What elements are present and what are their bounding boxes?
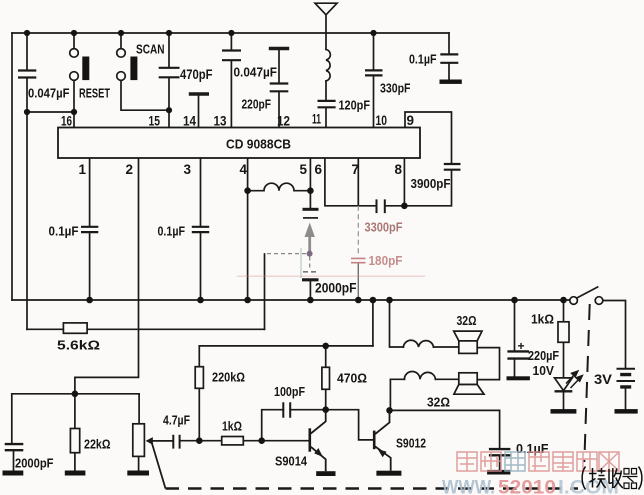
stub plate pin12 top bar bbox=[269, 47, 289, 50]
wire 2000pF bottom-left column bbox=[12, 394, 14, 471]
capacitor C 100pF plates bbox=[283, 403, 290, 416]
wire scan switch stubs bbox=[121, 33, 169, 110]
capacitor 0.1uF top-right plates bbox=[440, 54, 458, 62]
svg-text:220kΩ: 220kΩ bbox=[212, 370, 245, 385]
svg-text:15: 15 bbox=[149, 114, 161, 129]
svg-text:0.1µF: 0.1µF bbox=[158, 225, 186, 239]
capacitor C1 0.047uF left stubs bbox=[26, 33, 28, 112]
speaker BL2 box bbox=[459, 373, 477, 385]
ground LED bbox=[551, 409, 577, 414]
ground 0.1uF bottom-right bbox=[487, 470, 510, 475]
capacitor 220pF plates bbox=[270, 84, 289, 92]
wire volume rail bbox=[12, 393, 139, 395]
resistor R2 220k body bbox=[195, 367, 203, 389]
capacitor 2000pF dashed plate bbox=[303, 271, 318, 273]
wire supply rail 220k/470 bbox=[199, 345, 373, 347]
svg-text:120pF: 120pF bbox=[339, 98, 371, 113]
speaker BL1 box bbox=[459, 341, 477, 354]
svg-text:1: 1 bbox=[79, 162, 87, 177]
ground 2000pF bottom-left bbox=[3, 471, 24, 476]
wire pin10 column 330pF bbox=[373, 33, 375, 128]
svg-text:470Ω: 470Ω bbox=[337, 371, 367, 386]
resistor R4 22k body bbox=[70, 429, 79, 453]
wire reset switch stubs pin16 bbox=[73, 33, 75, 128]
capacitor 180pF faint plates bbox=[351, 258, 366, 262]
wire top rail bbox=[12, 32, 449, 34]
svg-text:10: 10 bbox=[376, 113, 388, 128]
resistor R3 1k body bbox=[222, 437, 244, 445]
wire pin4 column bbox=[247, 158, 249, 300]
svg-text:22kΩ: 22kΩ bbox=[84, 438, 111, 452]
varactor gray dot bbox=[307, 251, 313, 257]
wire pin7 upper bbox=[357, 158, 359, 206]
wire bus to supply rail link bbox=[372, 300, 374, 346]
capacitor 0.1uF pin3 plates bbox=[192, 227, 209, 232]
wire pin15 column with 470pF gap bbox=[168, 33, 170, 128]
wire antenna column pin11 bbox=[325, 15, 327, 128]
watermark chinese characters pink outline bbox=[457, 452, 619, 471]
battery stub to ground bbox=[625, 388, 627, 409]
svg-text:+: + bbox=[518, 339, 525, 353]
resistor R5 470 body bbox=[322, 367, 330, 389]
inductor L4 speaker coil2 bbox=[404, 372, 435, 380]
svg-text:2: 2 bbox=[126, 162, 134, 177]
wire ground bus bbox=[12, 299, 570, 301]
wire pin7 faint lower segment bbox=[357, 206, 359, 257]
wire top right 0.1uF column bbox=[448, 33, 450, 80]
svg-text:220pF: 220pF bbox=[242, 97, 272, 112]
svg-text:2000pF: 2000pF bbox=[315, 281, 357, 296]
resistor R 5.6k line bbox=[27, 328, 265, 330]
svg-text:1kΩ: 1kΩ bbox=[531, 313, 554, 327]
scan artifact teal line bbox=[300, 248, 302, 278]
svg-text:8: 8 bbox=[395, 162, 403, 177]
wire pin3 column 0.1uF bbox=[200, 158, 202, 300]
svg-text:4: 4 bbox=[240, 162, 248, 177]
svg-text:3: 3 bbox=[184, 162, 192, 177]
pushbutton SCAN circles bbox=[117, 49, 126, 58]
svg-text:5: 5 bbox=[300, 162, 308, 177]
wire 220uF column bbox=[514, 300, 516, 376]
svg-text:3V: 3V bbox=[594, 372, 612, 387]
battery B1 plates bbox=[617, 369, 636, 381]
svg-text:13: 13 bbox=[214, 114, 227, 129]
dashed receiver boundary bottom bbox=[166, 487, 579, 489]
pushbutton SCAN actuator bbox=[130, 57, 137, 81]
transistor Q2 emitter bbox=[375, 447, 391, 471]
svg-text:470pF: 470pF bbox=[180, 67, 213, 82]
capacitor 220uF plates bbox=[507, 351, 529, 358]
varactor D2 gray arrow bbox=[305, 223, 315, 252]
varactor top plate thick bbox=[303, 208, 319, 211]
wire pin13 column 0.047uF bbox=[230, 33, 232, 128]
svg-text:52010: 52010 bbox=[498, 478, 556, 495]
svg-text:0.1µF: 0.1µF bbox=[49, 225, 79, 239]
wire varactor tap column x264.5 bbox=[264, 254, 266, 329]
svg-text:330pF: 330pF bbox=[380, 81, 411, 96]
svg-text:CD 9088CB: CD 9088CB bbox=[226, 137, 291, 152]
svg-text:7: 7 bbox=[352, 162, 360, 177]
receiver boundary diagonal near pot bbox=[152, 443, 166, 489]
svg-text:220µF: 220µF bbox=[528, 349, 559, 363]
resistor R1 5.6k body bbox=[63, 323, 87, 333]
ground top-right 0.1uF bbox=[440, 80, 462, 84]
node Q1 collector junction bbox=[322, 406, 329, 413]
svg-text:S9012: S9012 bbox=[396, 436, 426, 451]
ground battery bbox=[615, 409, 638, 414]
svg-text:100pF: 100pF bbox=[274, 384, 305, 399]
svg-text:6: 6 bbox=[315, 162, 323, 177]
transistor Q2 emitter arrow inward bbox=[378, 449, 387, 457]
resistor R6 1k right body bbox=[558, 322, 569, 343]
transistor Q2 S9012 base bar bbox=[373, 431, 376, 450]
inductor L1 pin11 coil bbox=[326, 49, 330, 81]
transistor Q1 S9014 base bar bbox=[308, 428, 311, 451]
wire 1k right column bbox=[563, 300, 565, 378]
transistor Q1 emitter arrow bbox=[314, 448, 323, 457]
ground 22k bbox=[65, 471, 86, 476]
LED D1 triangle bbox=[555, 378, 573, 391]
wire bus to speaker coil1 bbox=[390, 300, 404, 347]
antenna bbox=[315, 3, 337, 15]
LED light arrows bbox=[566, 371, 582, 388]
wire pin2 column jog bbox=[75, 158, 139, 394]
varactor dashed bottom column bbox=[309, 257, 311, 271]
capacitor 0.1uF pin1 plates bbox=[81, 227, 98, 232]
svg-text:9: 9 bbox=[407, 113, 415, 128]
label (receiver) black chinese bbox=[582, 467, 642, 490]
capacitor 470pF plates bbox=[159, 68, 180, 78]
node supply rail 470 junction bbox=[322, 343, 329, 350]
svg-text:S9014: S9014 bbox=[275, 454, 308, 469]
svg-text:RESET: RESET bbox=[79, 87, 110, 101]
wire 22k column bbox=[74, 394, 76, 471]
svg-text:32Ω: 32Ω bbox=[457, 313, 477, 328]
wire pin1 column 0.1uF bbox=[89, 158, 91, 300]
speaker BL1 cone bbox=[454, 331, 482, 341]
wire coil2 to speaker2 and S9012 collector bbox=[390, 379, 458, 410]
svg-text:11: 11 bbox=[312, 112, 321, 127]
node top rail junctions bbox=[24, 30, 30, 36]
wire tuning column x27 bbox=[26, 112, 28, 329]
speaker BL2 cone bbox=[454, 385, 484, 395]
node pin8 3300pF junction bbox=[401, 203, 408, 210]
ground S9012 emitter bbox=[376, 471, 401, 476]
wire pin9 loop to 3900pF bbox=[404, 112, 451, 206]
svg-text:SCAN: SCAN bbox=[136, 42, 165, 57]
potentiometer wiper arrow bbox=[146, 437, 153, 445]
svg-text:0.047µF: 0.047µF bbox=[28, 87, 70, 101]
varactor bottom stub to bus bbox=[309, 282, 311, 301]
wire left rail bbox=[11, 33, 13, 300]
wire 220k stubs bbox=[198, 346, 200, 441]
wire coil1 to speaker1 bbox=[434, 346, 459, 348]
varactor dashed tap line bbox=[265, 253, 307, 255]
svg-text:2000pF: 2000pF bbox=[15, 456, 54, 471]
svg-text:3300pF: 3300pF bbox=[365, 220, 403, 235]
watermark www.52010 bottom row bbox=[442, 478, 619, 495]
svg-text:3900pF: 3900pF bbox=[411, 177, 451, 191]
svg-text:5.6kΩ: 5.6kΩ bbox=[57, 338, 100, 353]
wire LED to ground bbox=[563, 392, 565, 410]
scan artifact pink line bbox=[237, 275, 425, 277]
svg-text:WWW.: WWW. bbox=[442, 478, 495, 495]
capacitor 4.7uF plates bbox=[173, 435, 179, 449]
inductor L3 speaker coil1 bbox=[403, 340, 433, 347]
svg-text:4.7µF: 4.7µF bbox=[163, 414, 190, 428]
wire S9014 collector link to S9012 base bbox=[326, 410, 374, 440]
LED cathode bar bbox=[555, 390, 573, 392]
wire pin7 faint to bus bbox=[357, 264, 359, 301]
varactor second plate bbox=[303, 217, 318, 219]
wire pot wiper tail bbox=[149, 440, 173, 442]
svg-text:10V: 10V bbox=[533, 364, 555, 378]
svg-text:180pF: 180pF bbox=[369, 253, 403, 268]
svg-text:16: 16 bbox=[61, 114, 72, 129]
node y112 junctions bbox=[24, 109, 30, 115]
capacitor 120pF plates bbox=[318, 101, 336, 107]
potentiometer RP body bbox=[133, 424, 145, 457]
svg-text:I.COM: I.COM bbox=[558, 478, 619, 495]
pushbutton RESET circles bbox=[70, 49, 79, 58]
ground pot bbox=[127, 471, 149, 476]
dashed receiver boundary right bbox=[584, 304, 589, 462]
varactor top stub bbox=[309, 191, 311, 208]
svg-text:0.047µF: 0.047µF bbox=[234, 65, 278, 80]
wire 100pF branch bbox=[262, 410, 326, 441]
switch S1 circles bbox=[570, 297, 578, 305]
wire pin12 column 220pF bbox=[278, 50, 280, 128]
transistor Q2 collector bbox=[375, 410, 389, 434]
capacitor 0.1uF bottom-right plates bbox=[489, 449, 511, 455]
switch lever bbox=[577, 287, 598, 298]
ground 220uF bbox=[507, 376, 530, 380]
wire 4.7uF to base rail bbox=[180, 440, 309, 442]
transistor Q1 emitter bbox=[311, 447, 326, 471]
node base rail junctions bbox=[196, 437, 203, 444]
svg-text:14: 14 bbox=[183, 114, 196, 129]
wire pin6 to 3300pF line bbox=[325, 158, 405, 206]
svg-text:0.1µF: 0.1µF bbox=[409, 53, 437, 67]
wire pin14 stub bbox=[198, 96, 200, 128]
node bus junctions bbox=[86, 297, 93, 304]
svg-text:0.1µF: 0.1µF bbox=[516, 442, 549, 456]
wire bus right of switch to battery bbox=[603, 301, 626, 369]
node inductor L2 ends bbox=[244, 187, 251, 194]
capacitor 2000pF bottom-left plates bbox=[5, 444, 24, 450]
IC U1 CD9088CB body bbox=[58, 128, 420, 159]
wire S9012 collector line to 0.1uF bbox=[390, 410, 500, 470]
node volume rail junction bbox=[72, 391, 79, 398]
wire pot column bbox=[138, 394, 141, 471]
svg-text:32Ω: 32Ω bbox=[427, 396, 450, 410]
wire reset net y112 bbox=[27, 111, 74, 113]
wire pin5 stub bbox=[309, 158, 311, 191]
svg-text:12: 12 bbox=[277, 114, 290, 129]
capacitor 0.047uF pin13 plates bbox=[222, 51, 241, 61]
svg-text:1kΩ: 1kΩ bbox=[222, 420, 242, 434]
stub plate pin14 top bar bbox=[189, 92, 209, 95]
ground S9014 emitter bbox=[316, 471, 335, 476]
wire pin8 stub bbox=[403, 128, 405, 206]
pushbutton RESET actuator bbox=[82, 57, 89, 81]
node Q2 collector junction bbox=[386, 407, 393, 414]
capacitor C 3300pF plates bbox=[377, 200, 385, 212]
transistor Q1 collector bbox=[311, 410, 326, 434]
capacitor C1 0.047uF plates bbox=[18, 71, 36, 78]
capacitor 330pF plates bbox=[365, 70, 383, 75]
wire speaker loop right side bbox=[477, 348, 499, 380]
inductor L2 between pin4 and pin5 bbox=[248, 183, 311, 190]
capacitor 2000pF mid solid plate bbox=[302, 278, 319, 281]
capacitor 3900pF plates bbox=[444, 164, 461, 170]
wire 470 stubs bbox=[325, 346, 327, 410]
